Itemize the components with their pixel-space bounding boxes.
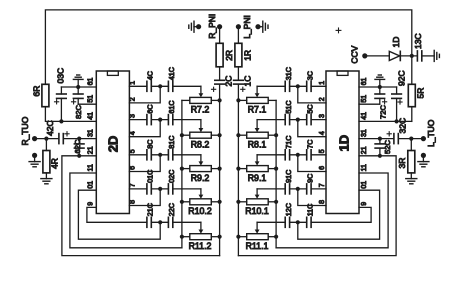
potentiometer R10.2 [180,199,222,216]
pin 2 label D1 [319,97,326,101]
svg-text:5R: 5R [415,88,425,99]
ground (up) at pin 16 [73,75,83,87]
pin 1 label D1 [319,81,326,85]
pin 7 label D1 [319,183,326,187]
svg-text:92C: 92C [397,70,407,86]
wire pin 10 loop D1 [298,190,380,239]
wire pin 11 loop D1 [276,173,388,248]
capacitor C7 [305,140,314,160]
svg-text:R11.1: R11.1 [246,241,269,251]
capacitor C5 [305,104,314,124]
svg-text:R7.1: R7.1 [248,105,267,115]
svg-text:8C: 8C [146,140,155,149]
pin 10 label D1 [361,181,368,189]
wire pin 13 to OUT_L [359,137,423,141]
pin 4 label D1 [319,131,326,135]
pin 6 label D1 [319,166,326,170]
svg-text:1: 1 [319,81,326,85]
capacitor C28 [72,87,84,119]
ground below R4 [41,179,52,184]
resistor R6 [32,84,49,106]
svg-text:2D: 2D [106,136,121,153]
capacitor C12 [146,203,155,227]
pin 1 label D2 [129,81,136,85]
capacitor C25 [375,132,392,158]
capacitor C1 [234,76,253,92]
node OUT_L [421,119,436,147]
wire pin 2 jog [129,86,160,103]
svg-text:R9.2: R9.2 [191,173,210,183]
ground below R3 [406,179,417,184]
svg-text:2R: 2R [224,50,234,61]
svg-text:5: 5 [129,149,136,153]
svg-text:1C: 1C [243,76,253,87]
svg-text:41: 41 [361,112,368,120]
svg-text:51C: 51C [284,100,293,113]
pin 5 label D1 [319,149,326,153]
capacitor C3 [305,71,314,91]
svg-text:1D: 1D [391,37,401,48]
svg-text:3: 3 [129,114,136,118]
svg-text:R9.1: R9.1 [248,173,267,183]
capacitor C23 [394,118,407,144]
capacitor C17 [284,136,293,160]
capacitor C9 [305,174,314,194]
capacitor C13 [284,67,293,91]
wire VCC to diode [365,55,390,57]
ground (up) at pin 16 D1 [375,75,385,87]
wire pin 9 loop D1 [311,207,371,222]
wire pin 3 row D1 [257,118,326,129]
wire pin 9 loop [87,207,147,222]
capacitor C21 [284,203,293,227]
wire pin 12 row / outer loop D1 [238,156,396,256]
svg-text:8: 8 [319,200,326,204]
wiper arrow R11.1 [255,230,260,234]
resistor R2 [216,27,234,81]
svg-text:61: 61 [361,78,368,86]
svg-text:91C: 91C [284,170,293,183]
svg-text:4C: 4C [146,71,155,80]
svg-text:2C: 2C [223,76,233,87]
svg-text:3C: 3C [305,71,314,80]
wire pin 5 row [129,153,201,162]
svg-text:1: 1 [129,81,136,85]
wiper arrow R11.2 [199,230,204,234]
svg-text:2: 2 [129,97,136,101]
svg-text:R_PNI: R_PNI [207,14,217,39]
capacitor C15 [284,100,293,124]
pin 8 label D2 [129,200,136,204]
capacitor C27 [375,87,388,119]
svg-text:7: 7 [129,183,136,187]
svg-text:42C: 42C [45,120,55,136]
svg-text:1D: 1D [337,135,352,152]
wire pin 15 row D1 [359,103,380,105]
capacitor C6 [146,104,155,124]
svg-text:R10.1: R10.1 [245,206,269,216]
svg-text:61: 61 [87,78,94,86]
svg-text:4: 4 [319,131,326,135]
svg-text:6R: 6R [32,86,42,97]
wire pin 14 row D1 [359,120,412,122]
wiper arrow R7.1 [255,93,260,97]
wire pin 7 row [129,187,201,195]
svg-text:62C: 62C [73,139,82,153]
capacitor C11 [305,204,314,228]
wire left rail (ladder low) [181,100,183,247]
svg-text:71C: 71C [284,136,293,149]
wire pin 12 row / outer loop [62,156,220,256]
resistor R4 [43,139,59,179]
svg-text:8: 8 [129,200,136,204]
svg-text:6: 6 [319,166,326,170]
capacitor C26 [65,132,84,158]
wiper arrow R8.1 [255,128,260,132]
pin 13 label D1 [361,129,368,137]
capacitor C19 [284,170,293,194]
svg-text:01: 01 [361,181,368,189]
node OUT_R [20,116,37,145]
wire pin 4 jog [129,120,160,137]
svg-text:82C: 82C [74,105,83,119]
svg-text:3: 3 [319,114,326,118]
svg-text:6C: 6C [146,104,155,113]
svg-text:03C: 03C [55,68,65,84]
svg-text:41C: 41C [167,67,176,80]
wiper arrow R9.1 [255,161,260,165]
wire pin 8 jog D1 [298,189,326,206]
svg-text:01: 01 [87,181,94,189]
wire pin 5 row D1 [257,153,326,162]
op-amp/IC D2 [96,71,129,214]
ground right of C31 [422,50,440,61]
svg-text:02C: 02C [167,170,176,183]
wire pin 11 loop [70,173,182,248]
svg-text:11: 11 [361,164,368,171]
diode D1 [389,37,401,61]
svg-text:31: 31 [361,129,368,137]
pin 13 label D2 [87,129,94,137]
svg-text:9C: 9C [305,174,314,183]
svg-text:2: 2 [319,97,326,101]
pin 3 label D2 [129,114,136,118]
wire R6 bottom to pin 14 row [45,107,96,122]
ground terminal below OUT_R [29,153,40,167]
potentiometer R7.2 [182,97,222,114]
svg-text:72C: 72C [379,105,388,119]
capacitor C2 [212,76,234,92]
wire pin 1 row [129,84,201,93]
ground right of INP_L [255,21,268,32]
capacitor C18 [167,136,176,160]
pin 7 label D2 [129,183,136,187]
resistor R1 [235,27,252,81]
potentiometer R9.2 [180,166,222,183]
svg-text:R7.2: R7.2 [191,105,210,115]
svg-text:13C: 13C [413,33,423,49]
wire pin 16 row D1 [359,85,397,89]
capacitor C16 [167,100,176,124]
svg-text:R8.1: R8.1 [248,139,267,149]
svg-text:CCV: CCV [350,45,360,63]
wire diode to rail [400,54,417,58]
wire pin 10 loop [78,190,160,239]
svg-text:51: 51 [87,95,94,103]
wire band5 row [151,220,201,229]
capacitor C29 [392,70,407,123]
wiper arrow R9.2 [199,161,204,165]
svg-text:4R: 4R [49,158,59,169]
ground terminal below OUT_L [418,153,429,167]
pin 3 label D1 [319,114,326,118]
svg-text:L_TUO: L_TUO [426,119,436,147]
wiper arrow R10.1 [255,195,260,199]
pin 11 label D2 [87,164,94,171]
svg-text:21: 21 [87,146,94,154]
pin 12 label D1 [361,146,368,154]
potentiometer R10.1 [236,199,278,216]
svg-text:81C: 81C [167,136,176,149]
svg-text:5: 5 [319,149,326,153]
pin 9 label D2 [87,202,94,206]
pin 12 label D2 [87,146,94,154]
wire pin 8 jog [129,189,160,206]
wire pin 4 jog D1 [298,120,326,137]
node INP_R [207,14,222,39]
svg-text:52C: 52C [383,140,392,154]
wiper arrow R10.2 [199,195,204,199]
wire pin 15 row [78,103,96,105]
capacitor C8 [146,140,155,160]
capacitor C22 [167,203,176,227]
svg-text:R11.2: R11.2 [189,241,212,251]
capacitor C30 [55,68,67,124]
wire pin 1 row D1 [257,84,326,93]
capacitor C4 [146,71,155,91]
svg-text:31C: 31C [284,67,293,80]
ground left of INP_R [189,21,201,32]
wire pin 16 row [61,85,96,89]
polarity mark + [336,28,341,33]
potentiometer R7.1 [236,97,276,114]
svg-text:R10.2: R10.2 [188,206,212,216]
op-amp/IC D1 [326,71,359,214]
svg-text:11: 11 [87,164,94,171]
potentiometer R11.1 [236,234,278,251]
svg-text:61C: 61C [167,100,176,113]
capacitor C31 [413,33,423,60]
svg-text:32C: 32C [397,118,407,134]
svg-text:21C: 21C [146,203,155,216]
pin 14 label D1 [361,112,368,120]
svg-text:4: 4 [129,131,136,135]
pin 6 label D2 [129,166,136,170]
node VCC [350,45,368,63]
pin 15 label D2 [87,95,94,103]
svg-text:12C: 12C [284,203,293,216]
svg-text:L_PNI: L_PNI [242,15,252,39]
potentiometer R8.2 [180,132,222,149]
wire OUT_R to pin 13 [35,137,97,141]
wire pin 6 jog [129,155,160,172]
svg-text:7: 7 [319,183,326,187]
svg-text:1R: 1R [242,50,252,61]
wire band5 row D1 [257,220,307,229]
capacitor C24 [45,120,64,143]
svg-text:9: 9 [87,202,94,206]
svg-text:R8.2: R8.2 [191,139,210,149]
capacitor C10 [146,170,155,194]
pin 2 label D2 [129,97,136,101]
svg-text:5C: 5C [305,104,314,113]
wire pin 6 jog D1 [298,155,326,172]
svg-text:31: 31 [87,129,94,137]
pin 10 label D2 [87,181,94,189]
potentiometer R11.2 [180,234,222,251]
svg-text:9: 9 [361,202,368,206]
resistor R3 [397,139,415,179]
wire top supply rail [45,10,411,84]
pin 8 label D1 [319,200,326,204]
wire pin 3 row [129,118,201,129]
wire right rail D1 ladder [275,100,277,247]
wiper arrow R7.2 [199,93,204,97]
svg-text:41: 41 [87,112,94,120]
pin 11 label D1 [361,164,368,171]
svg-text:6: 6 [129,166,136,170]
pin 9 label D1 [361,202,368,206]
wiper arrow R8.2 [199,128,204,132]
svg-text:22C: 22C [167,203,176,216]
wire pin 2 jog D1 [298,86,326,103]
capacitor C14 [167,67,176,91]
svg-text:51: 51 [361,95,368,103]
pin 4 label D2 [129,131,136,135]
wire left rail D1 ladder [237,84,239,256]
pin 16 label D2 [87,78,94,86]
svg-text:11C: 11C [305,204,314,217]
pin 5 label D2 [129,149,136,153]
wire pin 7 row D1 [257,187,326,195]
svg-text:R_TUO: R_TUO [20,116,30,145]
wire right rail (ladder high) [219,84,221,256]
svg-text:01C: 01C [146,170,155,183]
pin 16 label D1 [361,78,368,86]
potentiometer R9.1 [236,166,278,183]
svg-text:3R: 3R [397,158,407,169]
capacitor C20 [167,170,176,194]
svg-text:21: 21 [361,146,368,154]
pin 14 label D2 [87,112,94,120]
node INP_L [236,15,252,39]
resistor R5 [408,56,425,122]
potentiometer R8.1 [236,132,278,149]
pin 15 label D1 [361,95,368,103]
svg-text:7C: 7C [305,140,314,149]
